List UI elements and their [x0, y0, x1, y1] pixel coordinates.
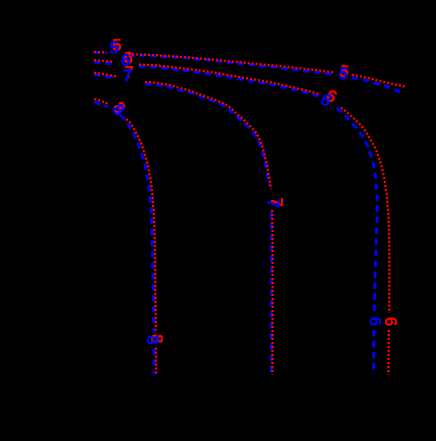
svg-text:8: 8 — [143, 335, 163, 345]
svg-text:7: 7 — [123, 66, 133, 86]
svg-text:5: 5 — [109, 37, 119, 57]
svg-text:6: 6 — [366, 317, 386, 327]
svg-text:7: 7 — [264, 198, 284, 208]
